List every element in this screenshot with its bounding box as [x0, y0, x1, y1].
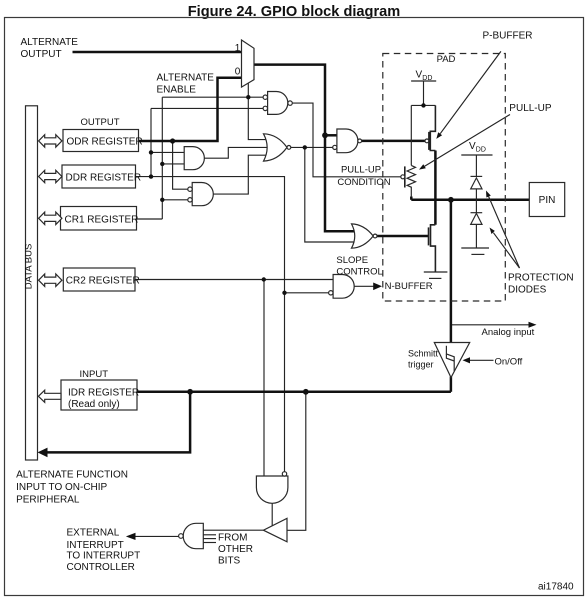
svg-text:INTERRUPT: INTERRUPT: [67, 540, 124, 551]
svg-text:CR1 REGISTER: CR1 REGISTER: [65, 215, 139, 226]
svg-text:(Read only): (Read only): [68, 399, 120, 410]
svg-text:FROM: FROM: [218, 533, 247, 544]
svg-text:Analog input: Analog input: [482, 327, 535, 338]
svg-text:P-BUFFER: P-BUFFER: [483, 31, 533, 42]
svg-text:PAD: PAD: [437, 54, 456, 65]
svg-text:ALTERNATE FUNCTION: ALTERNATE FUNCTION: [16, 470, 128, 481]
svg-text:OUTPUT: OUTPUT: [21, 49, 62, 60]
svg-text:CONDITION: CONDITION: [337, 177, 390, 188]
svg-text:PULL-UP: PULL-UP: [509, 103, 552, 114]
svg-text:PROTECTION: PROTECTION: [508, 273, 574, 284]
svg-text:EXTERNAL: EXTERNAL: [67, 527, 120, 538]
svg-text:CONTROLLER: CONTROLLER: [67, 562, 135, 573]
svg-text:DATA BUS: DATA BUS: [24, 244, 35, 290]
svg-text:BITS: BITS: [218, 555, 241, 566]
svg-text:0: 0: [235, 67, 241, 78]
svg-text:ODR REGISTER: ODR REGISTER: [67, 137, 143, 148]
svg-text:Schmitt: Schmitt: [408, 349, 439, 359]
svg-text:OUTPUT: OUTPUT: [81, 117, 120, 128]
svg-text:PULL-UP: PULL-UP: [341, 165, 381, 176]
svg-text:ALTERNATE: ALTERNATE: [21, 37, 79, 48]
svg-text:DIODES: DIODES: [508, 285, 547, 296]
svg-text:On/Off: On/Off: [495, 356, 523, 367]
svg-text:DD: DD: [476, 146, 486, 153]
svg-text:SLOPE: SLOPE: [336, 255, 368, 266]
svg-text:ENABLE: ENABLE: [157, 85, 197, 96]
svg-text:N-BUFFER: N-BUFFER: [385, 281, 433, 292]
svg-text:INPUT TO ON-CHIP: INPUT TO ON-CHIP: [16, 482, 107, 493]
svg-text:PIN: PIN: [539, 195, 556, 206]
svg-text:trigger: trigger: [408, 360, 434, 370]
svg-text:OTHER: OTHER: [218, 544, 253, 555]
svg-text:IDR REGISTER: IDR REGISTER: [68, 388, 139, 399]
svg-text:DDR REGISTER: DDR REGISTER: [66, 173, 142, 184]
svg-text:INPUT: INPUT: [80, 369, 109, 380]
svg-text:ai17840: ai17840: [538, 582, 574, 593]
svg-text:TO INTERRUPT: TO INTERRUPT: [67, 551, 141, 562]
svg-text:ALTERNATE: ALTERNATE: [157, 73, 215, 84]
svg-text:1: 1: [235, 43, 241, 54]
svg-text:CR2 REGISTER: CR2 REGISTER: [66, 276, 140, 287]
svg-text:PERIPHERAL: PERIPHERAL: [16, 495, 80, 506]
svg-text:CONTROL: CONTROL: [336, 267, 382, 278]
